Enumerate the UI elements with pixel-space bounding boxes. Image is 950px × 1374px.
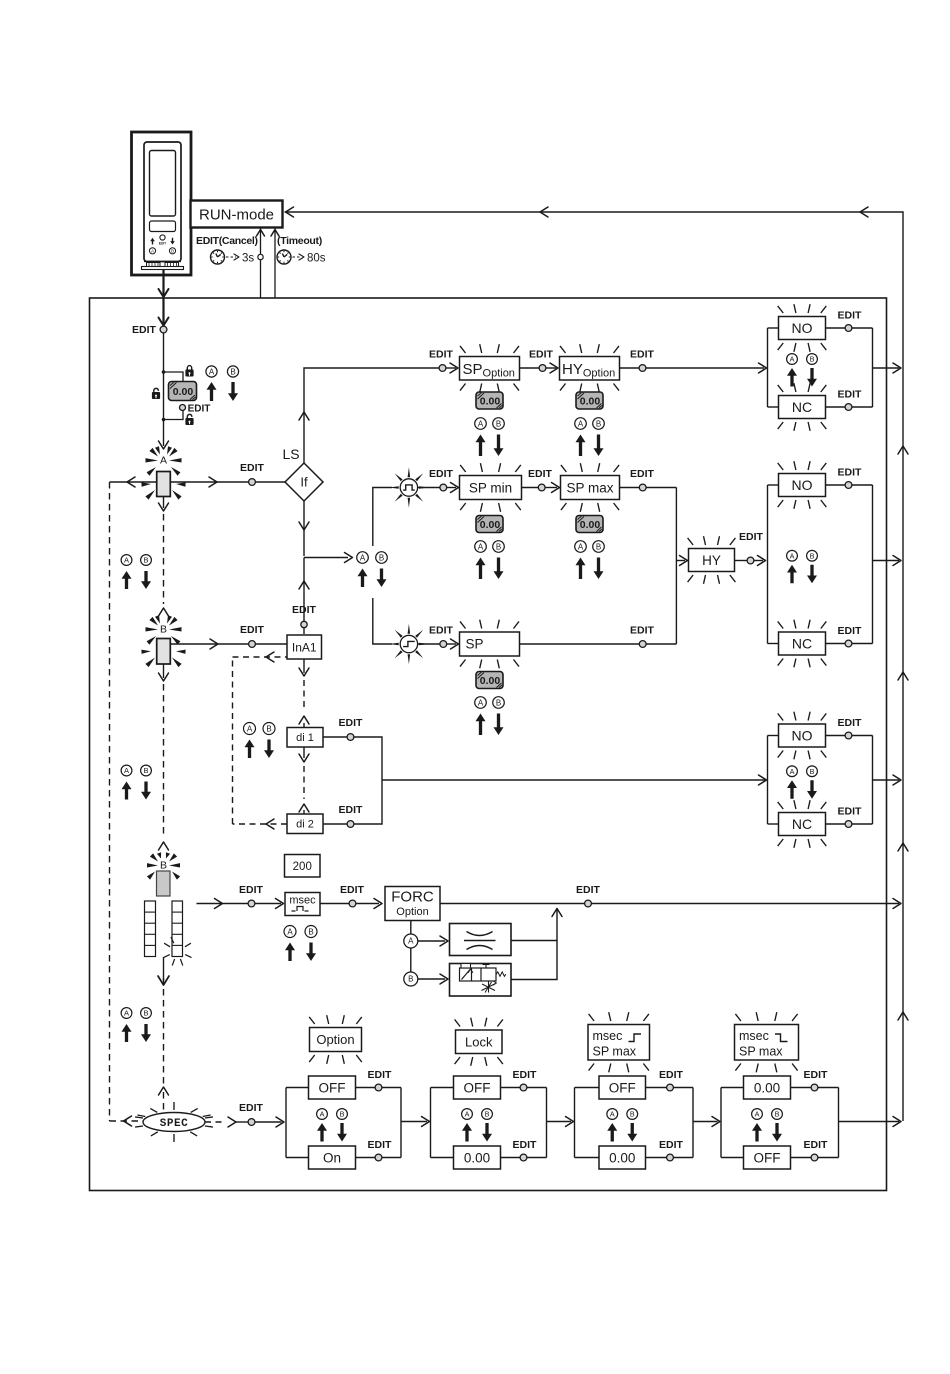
arrow down (B) bbox=[264, 740, 274, 759]
svg-text:EDIT: EDIT bbox=[239, 1102, 264, 1114]
EDIT node (lock) bbox=[180, 405, 186, 411]
device inner housing bbox=[144, 142, 181, 262]
svg-text:SP max: SP max bbox=[566, 480, 613, 495]
HY Option box bbox=[560, 357, 620, 381]
wires valve/venturi to FORC output bbox=[511, 908, 557, 941]
svg-text:EDIT: EDIT bbox=[240, 624, 265, 636]
EDIT node (bottom) bbox=[845, 640, 852, 647]
selection loop wires bbox=[430, 1088, 432, 1158]
wire icon to EDIT bbox=[417, 643, 440, 645]
EDIT node (top) bbox=[375, 1084, 382, 1091]
svg-text:di 2: di 2 bbox=[296, 819, 314, 831]
key A (circled) bbox=[787, 766, 798, 777]
svg-text:SP: SP bbox=[466, 637, 484, 652]
svg-text:A: A bbox=[287, 927, 293, 936]
arrow up (A) bbox=[122, 782, 132, 800]
svg-text:A: A bbox=[478, 698, 484, 707]
svg-text:B: B bbox=[408, 975, 413, 984]
key A (circled) bbox=[752, 1109, 763, 1120]
dashed wire down to SPEC bbox=[163, 978, 165, 1084]
EDIT node (bottom) bbox=[375, 1154, 382, 1161]
selection loop wires bbox=[767, 328, 769, 407]
FORC Option box bbox=[385, 887, 440, 921]
svg-text:EDIT: EDIT bbox=[576, 884, 601, 896]
key A (circled) bbox=[475, 418, 487, 430]
arrowhead left to loop bbox=[127, 477, 135, 487]
wire SP out to HY junction bbox=[520, 643, 640, 645]
device key B bbox=[169, 248, 175, 254]
dashed wire B down bbox=[163, 684, 165, 838]
svg-text:EDIT: EDIT bbox=[529, 349, 554, 361]
svg-text:EDIT: EDIT bbox=[368, 1139, 393, 1151]
Lock header box (flashing) bbox=[456, 1030, 503, 1054]
wire cluster 2 to riser bbox=[873, 560, 900, 562]
EDIT node (bottom) bbox=[845, 821, 852, 828]
device display window bbox=[150, 151, 176, 217]
arrow up (A) bbox=[476, 558, 486, 580]
arrowhead right bbox=[210, 639, 218, 649]
arrowhead up to InA1 side bbox=[299, 716, 309, 724]
arrowhead up to di 1 bbox=[299, 804, 309, 812]
wire frame to EDIT node (thick) bbox=[162, 298, 164, 325]
arrowhead up from InA1 bbox=[299, 581, 309, 589]
device key A bbox=[149, 248, 155, 254]
wire SP Option to HY Option bbox=[520, 367, 540, 369]
svg-text:B: B bbox=[230, 367, 235, 376]
svg-text:B: B bbox=[810, 767, 815, 776]
svg-text:If: If bbox=[300, 475, 308, 490]
svg-text:EDIT: EDIT bbox=[340, 884, 365, 896]
svg-text:EDIT: EDIT bbox=[630, 625, 655, 637]
svg-text:B: B bbox=[496, 542, 501, 551]
dashed wire di 1 to di 2 bbox=[303, 747, 305, 758]
wire to lock display bbox=[164, 372, 184, 381]
key B (circled) bbox=[807, 354, 818, 365]
key A (circled) bbox=[206, 366, 217, 377]
HY box bbox=[689, 549, 735, 572]
svg-text:NO: NO bbox=[792, 728, 813, 744]
arrow down (B) bbox=[228, 382, 238, 401]
key B (circled) bbox=[227, 366, 238, 377]
SP Option value display bbox=[476, 392, 503, 409]
key B (circled) bbox=[593, 541, 605, 553]
svg-text:A: A bbox=[790, 767, 795, 776]
arrow down (B) bbox=[141, 1024, 151, 1042]
svg-text:B: B bbox=[810, 355, 815, 364]
arrow up (A) bbox=[787, 368, 797, 387]
svg-text:A: A bbox=[160, 455, 167, 467]
arrow down (B) bbox=[494, 435, 504, 457]
arrow up (A) bbox=[476, 435, 486, 457]
msec box bbox=[285, 893, 320, 916]
If decision diamond bbox=[285, 463, 323, 501]
svg-text:OFF: OFF bbox=[464, 1080, 491, 1095]
svg-text:SPEC: SPEC bbox=[160, 1118, 188, 1130]
EDIT node (top) bbox=[667, 1084, 674, 1091]
svg-text:A: A bbox=[465, 1110, 470, 1119]
svg-text:EDIT: EDIT bbox=[292, 604, 317, 616]
key B (circled) bbox=[493, 541, 505, 553]
svg-text:SP max: SP max bbox=[593, 1045, 637, 1059]
SP min box bbox=[460, 476, 522, 500]
arrow down (B) bbox=[337, 1123, 347, 1142]
lock value display 0.00 bbox=[169, 382, 197, 401]
arrow down (B) bbox=[141, 571, 151, 589]
svg-text:0.00: 0.00 bbox=[480, 395, 501, 407]
key A (circled) bbox=[121, 765, 132, 776]
key B (circled) bbox=[305, 926, 317, 938]
svg-text:EDIT: EDIT bbox=[513, 1069, 538, 1081]
svg-text:80s: 80s bbox=[307, 253, 326, 265]
InA1 box bbox=[287, 635, 322, 659]
device button bar bbox=[150, 221, 176, 232]
wire SP max out bbox=[620, 487, 640, 489]
SP Option box bbox=[460, 357, 520, 381]
EDIT node (top) bbox=[811, 1084, 818, 1091]
msec/SP max header 1 (flashing) bbox=[588, 1025, 650, 1061]
svg-text:B: B bbox=[630, 1110, 635, 1119]
svg-text:NC: NC bbox=[792, 816, 812, 832]
svg-text:A: A bbox=[755, 1110, 760, 1119]
svg-text:A: A bbox=[478, 542, 484, 551]
wire to msec SP max cluster 2 bbox=[693, 1121, 718, 1123]
svg-text:EDIT: EDIT bbox=[838, 806, 863, 818]
svg-text:EDIT: EDIT bbox=[659, 1139, 684, 1151]
flash rays on active bar cell bbox=[164, 943, 170, 947]
display segment rectangle B bbox=[157, 639, 171, 665]
svg-text:200: 200 bbox=[293, 861, 312, 873]
svg-text:B: B bbox=[496, 698, 501, 707]
wire cluster 1 to riser bbox=[873, 367, 900, 369]
junction to keys A/B bbox=[304, 557, 348, 559]
EDIT node (top) bbox=[845, 482, 852, 489]
svg-text:0.00: 0.00 bbox=[480, 519, 501, 531]
arrow up (A) bbox=[245, 740, 255, 759]
key B (circled) bbox=[772, 1109, 783, 1120]
arrow up (A) bbox=[752, 1123, 762, 1142]
arrowhead up on riser 3 bbox=[898, 843, 908, 851]
svg-text:B: B bbox=[810, 551, 815, 560]
EDIT node (bottom) bbox=[811, 1154, 818, 1161]
svg-text:A: A bbox=[408, 937, 414, 946]
svg-text:EDIT: EDIT bbox=[429, 468, 454, 480]
dashed wire InA1 down to di 1 bbox=[303, 659, 305, 673]
svg-text:Option: Option bbox=[316, 1032, 354, 1047]
wire RUN-mode cancel line bbox=[260, 228, 262, 299]
key B (circled) bbox=[493, 418, 505, 430]
svg-text:A: A bbox=[790, 551, 795, 560]
cancel node bbox=[258, 254, 263, 259]
key B (circled) bbox=[807, 766, 818, 777]
key B (circled) bbox=[141, 555, 152, 566]
arrow down (B) bbox=[306, 943, 316, 962]
option box NO bbox=[779, 474, 826, 497]
svg-text:NO: NO bbox=[792, 320, 813, 336]
arrow up (A) bbox=[122, 571, 132, 589]
wire bar display to msec bbox=[197, 903, 249, 905]
svg-text:EDIT: EDIT bbox=[630, 349, 655, 361]
EDIT node (top) bbox=[520, 1084, 527, 1091]
dashed wire A to B bbox=[163, 514, 165, 604]
key A (circled) bbox=[787, 354, 798, 365]
svg-text:EDIT: EDIT bbox=[132, 324, 157, 336]
padlock closed icon bbox=[187, 366, 191, 370]
SP max value display bbox=[576, 516, 603, 533]
svg-text:EDIT: EDIT bbox=[838, 717, 863, 729]
svg-text:B: B bbox=[596, 419, 601, 428]
arrowhead up on riser 1 bbox=[898, 446, 908, 454]
svg-text:A: A bbox=[209, 367, 215, 376]
svg-text:EDIT: EDIT bbox=[528, 468, 553, 480]
wire msec to FORC bbox=[320, 903, 349, 905]
arrowhead right bbox=[209, 477, 217, 487]
SPEC ellipse (flashing) bbox=[143, 1113, 205, 1132]
svg-text:B: B bbox=[143, 556, 148, 565]
msec/SP max header 2 (flashing) bbox=[735, 1025, 799, 1061]
svg-text:EDIT: EDIT bbox=[838, 389, 863, 401]
dashed wire SPEC to EDIT bbox=[205, 1121, 226, 1123]
key B (circled) bbox=[141, 1008, 152, 1019]
svg-text:EDIT: EDIT bbox=[429, 349, 454, 361]
svg-text:HY: HY bbox=[702, 553, 721, 568]
svg-text:A: A bbox=[320, 1110, 325, 1119]
svg-text:EDIT: EDIT bbox=[513, 1139, 538, 1151]
option box 0.00 bbox=[744, 1076, 791, 1099]
wire into HY box bbox=[676, 560, 685, 562]
arrowhead into HY Option bbox=[546, 367, 556, 369]
option box NO bbox=[779, 724, 826, 747]
EDIT node (top) bbox=[845, 732, 852, 739]
option box NC bbox=[779, 813, 826, 836]
wire cluster to riser bbox=[839, 1121, 900, 1123]
EDIT node (top) bbox=[845, 325, 852, 332]
wire EDIT node down to display A bbox=[163, 333, 165, 446]
svg-text:EDIT: EDIT bbox=[804, 1069, 829, 1081]
wire to Lock cluster bbox=[401, 1121, 427, 1123]
return wire to RUN-mode (right side riser) bbox=[285, 212, 904, 1121]
flash burst rays around second B bbox=[150, 853, 158, 861]
EDIT-mode outer frame bbox=[90, 298, 887, 1191]
wire A to venturi bbox=[418, 940, 445, 942]
di 1 box bbox=[287, 728, 323, 748]
mode node B bbox=[404, 972, 418, 986]
display segment rectangle (second B) bbox=[157, 871, 171, 896]
arrow up (A) bbox=[787, 565, 797, 584]
key A (circled) bbox=[575, 418, 587, 430]
arrow up (A) bbox=[285, 943, 295, 962]
padlock open icon (left) bbox=[154, 388, 159, 392]
wire junction down to InA1 bbox=[303, 558, 305, 635]
arrowhead up on riser 2 bbox=[898, 672, 908, 680]
svg-text:FORC: FORC bbox=[391, 889, 434, 906]
arrow up (A) bbox=[358, 569, 368, 588]
svg-text:msec: msec bbox=[739, 1029, 769, 1043]
flash burst rays around B bbox=[149, 617, 158, 626]
svg-text:B: B bbox=[379, 553, 384, 562]
arrowhead up to display B bbox=[159, 842, 169, 850]
wire device to frame (thick) bbox=[162, 270, 164, 297]
svg-text:EDIT: EDIT bbox=[630, 468, 655, 480]
di 2 box bbox=[287, 814, 323, 834]
key A (circled) bbox=[607, 1109, 618, 1120]
svg-text:B: B bbox=[308, 927, 313, 936]
option box 0.00 bbox=[599, 1146, 646, 1169]
arrow down (B) bbox=[807, 565, 817, 584]
wire left loop from display A (dashed exit) bbox=[110, 481, 157, 483]
arrow up (A) bbox=[476, 714, 486, 736]
dashed return di 2 to InA1 bbox=[233, 823, 288, 825]
HY Option value display bbox=[576, 392, 603, 409]
Option header box (flashing) bbox=[310, 1028, 362, 1052]
SP max box bbox=[561, 476, 620, 500]
SP box bbox=[460, 632, 520, 656]
svg-text:EDIT: EDIT bbox=[239, 884, 264, 896]
mode node A bbox=[404, 934, 418, 948]
svg-text:Option: Option bbox=[396, 906, 428, 918]
wire FORC to mode A/B nodes bbox=[410, 921, 412, 980]
svg-text:EDIT: EDIT bbox=[804, 1139, 829, 1151]
EDIT node (di 1) bbox=[323, 736, 378, 738]
junction dot upper bbox=[162, 370, 166, 374]
wire A/B bracket to hysteresis icon bbox=[373, 598, 392, 644]
svg-text:A: A bbox=[124, 1009, 129, 1018]
wire icon to EDIT bbox=[417, 487, 440, 489]
svg-text:EDIT: EDIT bbox=[159, 242, 166, 246]
wire below bar display bbox=[163, 957, 165, 981]
svg-text:EDIT: EDIT bbox=[339, 717, 364, 729]
svg-text:B: B bbox=[596, 542, 601, 551]
svg-text:B: B bbox=[775, 1110, 780, 1119]
svg-text:msec: msec bbox=[593, 1029, 623, 1043]
arrowhead left on top return wire 2 bbox=[540, 207, 548, 217]
arrow up (A) bbox=[122, 1024, 132, 1042]
selection loop wires bbox=[285, 1088, 287, 1158]
arrowhead left into RUN-mode box bbox=[286, 207, 294, 217]
svg-text:A: A bbox=[247, 724, 253, 733]
display segment rectangle A bbox=[157, 472, 171, 497]
key A (circled) bbox=[462, 1109, 473, 1120]
option box NC bbox=[779, 632, 826, 655]
wire display B to InA1 bbox=[171, 643, 288, 645]
bar graph right column bbox=[172, 901, 183, 957]
svg-text:InA1: InA1 bbox=[292, 640, 317, 654]
selection loop wires bbox=[720, 1088, 722, 1158]
key A (circled) bbox=[284, 926, 296, 938]
wire A/B bracket to window icon bbox=[373, 488, 392, 547]
svg-text:Lock: Lock bbox=[465, 1034, 493, 1049]
arrow down (B) bbox=[627, 1123, 637, 1142]
wire below display B bbox=[163, 664, 165, 678]
svg-text:A: A bbox=[124, 766, 129, 775]
key A (circled) bbox=[575, 541, 587, 553]
valve box bbox=[450, 964, 512, 997]
svg-text:B: B bbox=[496, 419, 501, 428]
svg-text:EDIT: EDIT bbox=[838, 310, 863, 322]
svg-text:On: On bbox=[323, 1150, 341, 1165]
bar graph left column bbox=[145, 901, 156, 957]
svg-text:SP max: SP max bbox=[739, 1045, 783, 1059]
arrowhead up bbox=[299, 412, 309, 420]
svg-text:B: B bbox=[340, 1110, 345, 1119]
svg-text:EDIT(Cancel): EDIT(Cancel) bbox=[196, 235, 258, 247]
SP value display bbox=[476, 672, 503, 689]
key A (circled) bbox=[475, 541, 487, 553]
svg-text:B: B bbox=[143, 766, 148, 775]
valve symbol bbox=[460, 968, 497, 981]
key B (circled) bbox=[337, 1109, 348, 1120]
arrow down (B) bbox=[772, 1123, 782, 1142]
flash rays around SPEC bbox=[173, 1102, 175, 1110]
svg-text:NC: NC bbox=[792, 399, 812, 415]
wire If diamond up to SP-Option row bbox=[304, 368, 439, 463]
option box OFF bbox=[744, 1146, 791, 1169]
svg-text:3s: 3s bbox=[242, 253, 254, 265]
svg-text:NO: NO bbox=[792, 477, 813, 493]
device EDIT button bbox=[160, 235, 165, 240]
svg-text:B: B bbox=[160, 860, 167, 872]
wire SP min to SP max bbox=[522, 487, 539, 489]
key A (circled) bbox=[475, 697, 487, 709]
option box On bbox=[309, 1146, 356, 1169]
svg-text:A: A bbox=[578, 542, 584, 551]
key B (circled) bbox=[141, 765, 152, 776]
wire below display A bbox=[163, 497, 165, 509]
selection loop wires bbox=[767, 485, 769, 644]
arrow down (B) bbox=[594, 435, 604, 457]
EDIT node (bottom) bbox=[845, 404, 852, 411]
arrow down (B) bbox=[141, 782, 151, 800]
svg-text:OFF: OFF bbox=[754, 1150, 781, 1165]
HY junction vertical bbox=[675, 488, 677, 645]
arrow up (A) bbox=[462, 1123, 472, 1142]
svg-text:(Timeout): (Timeout) bbox=[277, 235, 322, 247]
arrow down (B) bbox=[377, 569, 387, 588]
svg-text:A: A bbox=[578, 419, 584, 428]
wire cluster 3 to riser bbox=[873, 779, 900, 781]
junction dot lower bbox=[162, 418, 166, 422]
svg-text:EDIT: EDIT bbox=[659, 1069, 684, 1081]
key B (circled) bbox=[493, 697, 505, 709]
svg-text:0.00: 0.00 bbox=[480, 675, 501, 687]
arrow up (A) bbox=[787, 780, 797, 799]
svg-text:EDIT: EDIT bbox=[240, 462, 265, 474]
arrow up (A) bbox=[207, 382, 217, 401]
arrowhead up to B display bbox=[159, 608, 169, 616]
venturi (air saving) box bbox=[450, 924, 512, 956]
wire If diamond down to A/B junction bbox=[303, 501, 305, 556]
arrow up (A) bbox=[317, 1123, 327, 1142]
200 box bbox=[285, 855, 321, 878]
svg-text:A: A bbox=[360, 553, 366, 562]
svg-text:B: B bbox=[485, 1110, 490, 1119]
option box NC bbox=[779, 396, 826, 419]
option box 0.00 bbox=[454, 1146, 501, 1169]
device connector bbox=[144, 261, 181, 263]
clock icon 3s bbox=[211, 250, 225, 264]
icon flash rays bbox=[408, 467, 411, 477]
icon flash rays bbox=[408, 624, 411, 634]
svg-text:EDIT: EDIT bbox=[838, 625, 863, 637]
svg-text:EDIT: EDIT bbox=[739, 531, 764, 543]
wire display A to If diamond bbox=[171, 481, 286, 483]
selection loop wires bbox=[574, 1088, 576, 1158]
EDIT node (bottom) bbox=[667, 1154, 674, 1161]
clock icon 80s bbox=[277, 250, 291, 264]
padlock open icon (below) bbox=[187, 414, 192, 418]
svg-text:A: A bbox=[610, 1110, 615, 1119]
selection loop wires bbox=[767, 736, 769, 825]
SP min value display bbox=[476, 516, 503, 533]
